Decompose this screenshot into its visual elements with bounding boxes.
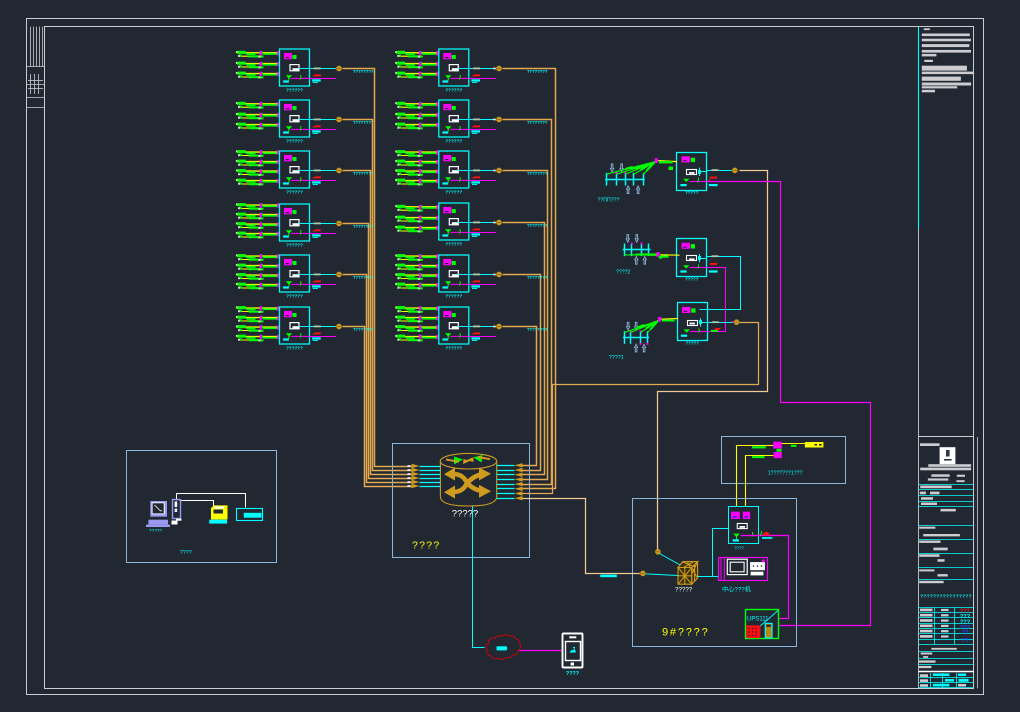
revision table (918, 607, 974, 644)
svg-text:??????: ?????? (445, 294, 462, 299)
svg-text:??: ?? (962, 630, 969, 636)
cyan diagonal to cube (660, 554, 683, 567)
svg-text:?????: ????? (675, 587, 693, 594)
box1 feed line (658, 161, 677, 162)
svg-text:??????: ?????? (445, 139, 462, 144)
distribution box L1 (280, 49, 310, 86)
magenta line out R2 (469, 129, 496, 131)
cyan link box to lens R1 (469, 68, 496, 70)
red/chip marks right of box1 (710, 177, 717, 179)
label on pale wire (600, 575, 617, 578)
svg-text:??????: ?????? (445, 346, 462, 351)
distribution box R6 (439, 307, 469, 344)
svg-text:????????: ???????? (353, 327, 374, 332)
svg-text:??????: ?????? (445, 88, 462, 93)
distribution box L6 (280, 307, 310, 344)
distribution box R5 (439, 255, 469, 292)
camera cluster rows, building block R2 (395, 102, 439, 109)
cloud cyan chip (497, 646, 507, 650)
box2 magenta to box3 magenta (707, 268, 726, 332)
distribution box R1 (439, 49, 469, 86)
pale wire switch port8 to cube junction (523, 499, 641, 574)
switch top-face arrows (446, 455, 490, 465)
magenta line out L6 (310, 336, 336, 338)
smartphone (563, 634, 583, 668)
binding strip marks top-left (27, 27, 45, 108)
svg-text:??????: ?????? (445, 242, 462, 247)
svg-text:?????: ????? (685, 276, 699, 281)
UPS box (746, 610, 779, 639)
orange wire L1 to switch (343, 69, 412, 467)
svg-text:????????: ???????? (353, 120, 374, 125)
magenta line out R4 (469, 232, 496, 234)
cyan link box to lens R2 (469, 119, 496, 121)
camera cluster rows, building block L5 (236, 254, 280, 261)
orange wire L6 to switch (343, 327, 412, 487)
svg-text:????????: ???????? (527, 327, 548, 332)
monitoring center box (127, 451, 277, 563)
chips/marks right of box R5 (471, 274, 480, 290)
distribution box L4 (280, 204, 310, 241)
svg-text:????2: ????2 (616, 270, 631, 276)
red/green marks on box3 magenta (711, 330, 718, 332)
svg-text:????????: ???????? (527, 171, 548, 176)
camera cluster rows, building block L6 (236, 306, 280, 313)
camera cluster rows, building block R6 (395, 306, 439, 313)
cyan link box to lens R6 (469, 326, 496, 328)
svg-text:?????: ????? (685, 341, 699, 346)
magenta line out L3 (310, 180, 336, 182)
orange wire L5 to switch (343, 275, 412, 483)
magenta line out L5 (310, 284, 336, 286)
junction lens L3 (336, 168, 343, 173)
lens after box1 (731, 168, 738, 173)
title block mid divider (918, 436, 974, 438)
box2 cyan daisy-chain to box3 (700, 257, 741, 310)
junction lens L1 (336, 66, 343, 71)
junction lens R5 (496, 272, 503, 277)
workstation computer (146, 500, 182, 528)
chips/marks right of box R3 (471, 170, 480, 186)
device comb for box2 (623, 235, 660, 265)
printer (209, 505, 227, 523)
orange wire R6 to switch (503, 327, 537, 466)
monitoring box U-A (box1) (677, 153, 707, 191)
camera cluster rows, building block R1 (395, 51, 439, 58)
svg-text:1???????1???: 1???????1??? (768, 471, 803, 477)
svg-text:9#????: 9#???? (662, 627, 710, 639)
chips/marks right of box R1 (471, 68, 480, 84)
chips/marks right of box R2 (471, 119, 480, 135)
company bars (920, 464, 971, 482)
svg-text:????????: ???????? (527, 69, 548, 74)
orange wire R5 to switch (503, 275, 541, 471)
magenta line out L4 (310, 233, 336, 235)
box2 feed line (660, 254, 679, 256)
lower info rows (918, 648, 974, 688)
junction lens R2 (496, 117, 503, 122)
controller magenta to UPS (741, 536, 789, 619)
yellow riser 2 (746, 456, 774, 507)
junction lens R4 (496, 220, 503, 225)
svg-text:????????: ???????? (353, 275, 374, 280)
camera cluster rows, building block L1 (236, 51, 280, 58)
magenta line out R1 (469, 78, 496, 80)
white dash before lens R1 (493, 68, 496, 70)
title block top notes bars (922, 28, 973, 92)
cyan lens to cube (646, 574, 678, 576)
distribution box R2 (439, 100, 469, 137)
exit button yellow (805, 442, 824, 448)
svg-text:??????: ?????? (286, 243, 303, 248)
project info rows (918, 526, 974, 584)
svg-text:??: ?? (961, 638, 969, 644)
core switch cylinder (440, 453, 496, 506)
camera cluster rows, building block L2 (236, 102, 280, 109)
box1 cyan to lens (707, 170, 736, 172)
chips/marks right of box L3 (312, 170, 321, 186)
camera cluster rows, building block R3 (395, 150, 439, 157)
cyan link box to lens R3 (469, 170, 496, 172)
cyan link box to lens L6 (310, 326, 337, 328)
box3 feed line (661, 318, 678, 321)
pale wire box1 to cube junction (658, 171, 768, 550)
cyan link box to lens L5 (310, 274, 337, 276)
title block inner right rule (977, 437, 979, 688)
svg-text:??????: ?????? (286, 346, 303, 351)
svg-text:??????: ?????? (286, 139, 303, 144)
white dash before lens R5 (493, 274, 496, 276)
junction lens R6 (496, 324, 503, 329)
white dash before lens R6 (493, 326, 496, 328)
9# equipment room enclosure (633, 499, 797, 647)
svg-text:??????: ?????? (445, 190, 462, 195)
cyan link box to lens L2 (310, 119, 337, 121)
junction lens before cube (640, 571, 647, 576)
svg-text:UPS111: UPS111 (747, 616, 769, 622)
yellow riser 1 (737, 446, 774, 507)
cyan link box to lens L4 (310, 223, 337, 225)
camera cluster rows, building block L3 (236, 150, 280, 157)
svg-text:??ΠΠ???: ??ΠΠ??? (598, 198, 620, 204)
orange wire box3 to switch port7 (523, 323, 759, 494)
monitoring box U-B (box2) (677, 239, 707, 277)
chips/marks right of box L6 (312, 326, 321, 342)
chips/marks right of box L1 (312, 68, 321, 84)
signature rows (918, 485, 974, 512)
svg-text:??????: ?????? (286, 88, 303, 93)
alarm bell red (760, 531, 772, 539)
cyan link box to lens R4 (469, 222, 496, 224)
cyan link box to lens L3 (310, 170, 337, 172)
svg-text:????: ???? (566, 671, 579, 677)
cyan downlink from switch (473, 507, 485, 648)
svg-text:????????????????: ???????????????? (920, 593, 972, 599)
cyan link box to lens L1 (310, 68, 337, 70)
junction lens L6 (336, 324, 343, 329)
magenta line out L1 (310, 78, 336, 80)
chips/marks right of box R4 (471, 222, 480, 238)
device comb for box3 (623, 317, 661, 352)
distribution box R3 (439, 151, 469, 188)
svg-text:????????: ???????? (353, 224, 374, 229)
access control box (top right) (722, 437, 846, 484)
lens after box3 (732, 321, 733, 323)
switch right ports (497, 463, 523, 500)
switch enclosure box (393, 444, 530, 558)
camera cluster rows, building block L4 (236, 203, 280, 210)
orange wire L2 to switch (343, 120, 412, 471)
management monitor (719, 558, 768, 581)
magenta line out R3 (469, 180, 496, 182)
magenta cloud to phone (520, 650, 563, 652)
svg-text:????: ???? (734, 546, 744, 551)
switch left ports (408, 464, 441, 488)
monitoring box U-C (box3) (678, 303, 708, 341)
orange wire L3 to switch (343, 171, 412, 475)
title block left rule (cyan top / gray bottom) (918, 27, 920, 688)
collection cube switch (678, 562, 698, 585)
orange wire R3 to switch (503, 171, 548, 480)
svg-text:????1: ????1 (609, 355, 624, 361)
camera cluster rows, building block R5 (395, 254, 439, 261)
svg-text:????: ???? (412, 540, 441, 552)
cyan link box to lens R5 (469, 274, 496, 276)
distribution box L5 (280, 255, 310, 292)
orange wire R1 to switch (503, 69, 556, 489)
distribution box R4 (439, 203, 469, 240)
svg-text:?????: ????? (685, 190, 699, 195)
yellow link to button (782, 443, 805, 445)
distribution box L2 (280, 100, 310, 137)
svg-text:????????: ???????? (527, 120, 548, 125)
reader blocks magenta (773, 442, 782, 449)
switch front X arrows (453, 474, 482, 492)
white dash before lens R3 (493, 170, 496, 172)
svg-text:??????: ?????? (286, 294, 303, 299)
orange wire R2 to switch (503, 120, 552, 485)
junction lens L5 (336, 272, 343, 277)
company logo square (940, 447, 956, 464)
svg-text:?????: ????? (452, 509, 478, 520)
junction lens L4 (336, 221, 343, 226)
orange wire R4 to switch (503, 223, 545, 475)
svg-text:?????: ????? (149, 528, 163, 534)
distribution box L3 (280, 151, 310, 188)
media device (237, 509, 263, 521)
cyan cube to node and monitor (698, 576, 719, 578)
junction lens R1 (496, 66, 503, 71)
magenta line out L2 (310, 129, 336, 131)
svg-text:????????: ???????? (527, 275, 548, 280)
chips/marks right of box L5 (312, 274, 321, 290)
magenta line out R5 (469, 284, 496, 286)
svg-text:??????: ?????? (286, 190, 303, 195)
svg-text:????????: ???????? (353, 69, 374, 74)
white cabling (177, 494, 246, 508)
svg-text:????: ???? (180, 550, 192, 556)
junction lens above cube (655, 549, 662, 554)
box1 magenta long wire to UPS right side (707, 182, 871, 626)
white dash before lens R2 (493, 119, 496, 121)
magenta line out R6 (469, 336, 496, 338)
controller box (cyan) (729, 507, 759, 544)
box3 cyan to lens (707, 322, 734, 324)
chips/marks right of box L2 (312, 119, 321, 135)
junction lens R3 (496, 168, 503, 173)
junction lens L2 (336, 117, 343, 122)
camera cluster rows, building block R4 (395, 205, 439, 212)
white dash before lens R4 (493, 222, 496, 224)
chips/marks right of box R6 (471, 326, 480, 342)
device comb for box1 (605, 158, 658, 193)
orange wire L4 to switch (343, 224, 412, 479)
chips/marks right of box L4 (312, 223, 321, 239)
svg-text:中心???机: 中心???机 (722, 585, 752, 593)
internet cloud (486, 635, 521, 660)
